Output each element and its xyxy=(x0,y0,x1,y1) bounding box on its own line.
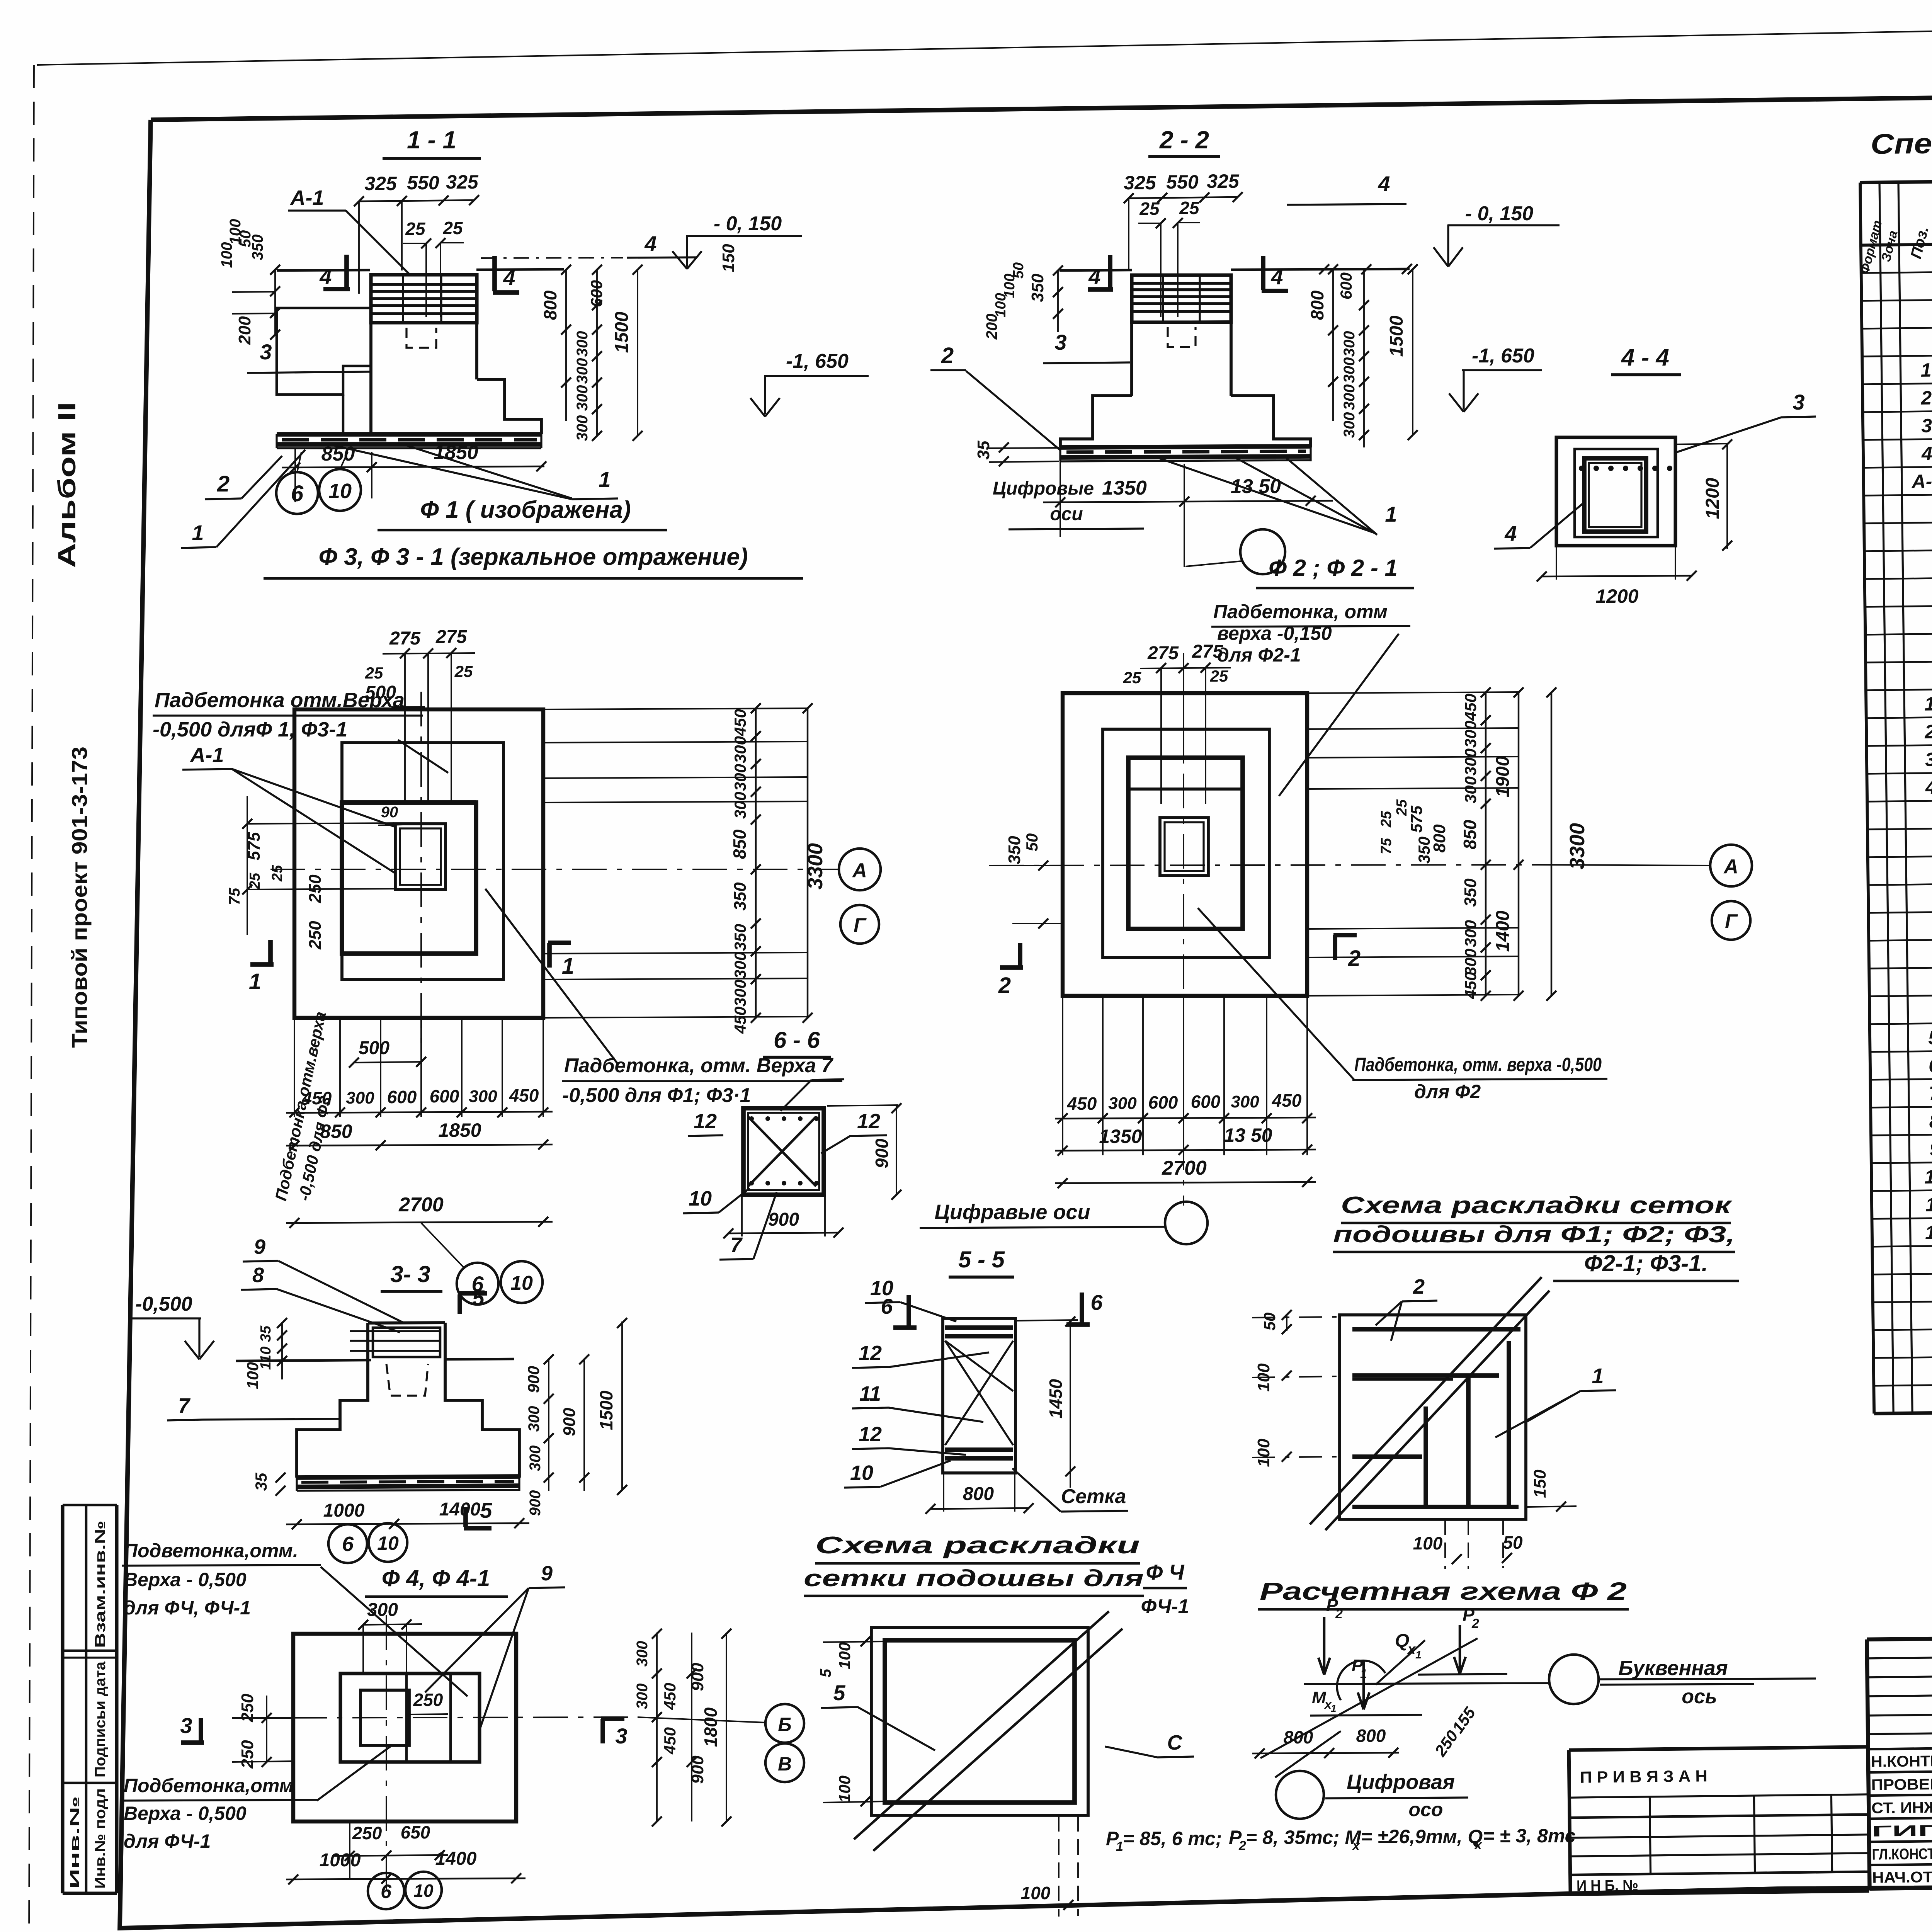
mesh scheme 2 rect xyxy=(871,1628,1088,1815)
svg-text:5: 5 xyxy=(1928,1027,1932,1048)
svg-text:25: 25 xyxy=(1210,667,1228,685)
plan F4 outer rect xyxy=(293,1634,516,1821)
svg-text:100: 100 xyxy=(1254,1439,1273,1467)
svg-text:50: 50 xyxy=(1260,1313,1279,1331)
svg-text:Типовой проект 901-3-173: Типовой проект 901-3-173 xyxy=(67,747,92,1048)
svg-text:7: 7 xyxy=(178,1394,191,1417)
svg-text:х: х xyxy=(1474,1838,1483,1852)
svg-text:осо: осо xyxy=(1409,1799,1443,1820)
svg-text:325: 325 xyxy=(364,173,397,194)
svg-text:1850: 1850 xyxy=(438,1119,481,1141)
section 2-2 ground line xyxy=(1060,270,1132,270)
svg-text:Ф 4, Ф 4-1: Ф 4, Ф 4-1 xyxy=(382,1565,490,1591)
svg-text:100: 100 xyxy=(835,1642,854,1669)
section 2-2 step profile xyxy=(1060,396,1132,447)
svg-text:800: 800 xyxy=(1430,824,1449,853)
detail 6-6 square xyxy=(743,1108,824,1195)
svg-text:3: 3 xyxy=(615,1724,627,1748)
svg-text:300: 300 xyxy=(574,331,591,357)
svg-text:300: 300 xyxy=(574,415,591,441)
plan F4 right dims xyxy=(656,1633,658,1821)
svg-text:600: 600 xyxy=(587,280,605,307)
svg-text:Альбом II: Альбом II xyxy=(53,402,81,568)
svg-text:300: 300 xyxy=(731,764,749,791)
plan F4 axis circles 6 10 bottom xyxy=(368,1873,404,1909)
svg-text:9: 9 xyxy=(254,1235,265,1259)
svg-text:Ф Ч: Ф Ч xyxy=(1146,1560,1185,1584)
svg-text:6: 6 xyxy=(342,1532,354,1556)
design scheme P2 arrow right xyxy=(1459,1625,1461,1672)
svg-text:1400: 1400 xyxy=(1493,910,1513,952)
outer sheet border top xyxy=(37,16,1932,65)
detail 6-6 X cross xyxy=(748,1117,816,1186)
svg-text:450: 450 xyxy=(661,1683,679,1710)
svg-text:325: 325 xyxy=(446,171,479,193)
section 3-3 slab xyxy=(297,1476,519,1478)
plan F2 column xyxy=(1160,818,1208,876)
svg-text:для Ф2-1: для Ф2-1 xyxy=(1217,644,1301,666)
svg-text:для Ф2: для Ф2 xyxy=(1414,1081,1481,1102)
plan F2 right dim chain xyxy=(1485,692,1487,996)
svg-text:для ФЧ, ФЧ-1: для ФЧ, ФЧ-1 xyxy=(124,1597,251,1619)
svg-text:35: 35 xyxy=(252,1473,270,1491)
svg-text:10: 10 xyxy=(870,1277,893,1300)
svg-text:12: 12 xyxy=(1925,1221,1932,1243)
svg-text:275: 275 xyxy=(389,628,421,649)
svg-text:Схема раскладки сеток: Схема раскладки сеток xyxy=(1341,1192,1732,1219)
detail 5-5 top bars xyxy=(945,1325,1013,1330)
svg-text:Инв.№ подл: Инв.№ подл xyxy=(92,1788,109,1889)
svg-text:300: 300 xyxy=(574,385,591,411)
svg-text:10: 10 xyxy=(413,1881,434,1901)
svg-text:25: 25 xyxy=(1179,198,1200,218)
svg-text:Цифровые: Цифровые xyxy=(993,478,1094,499)
section 1-1 dim 1500 xyxy=(637,270,638,436)
svg-text:1350: 1350 xyxy=(1102,477,1147,499)
outer sheet border left xyxy=(29,65,34,1932)
svg-text:1500: 1500 xyxy=(596,1390,616,1430)
svg-text:Г: Г xyxy=(1725,910,1738,933)
detail 5-5 dim 1450 right xyxy=(1017,1320,1078,1321)
plan F2 chain 1350 1350 xyxy=(1055,1150,1316,1151)
title block group xyxy=(1867,1630,1932,1889)
svg-text:850: 850 xyxy=(730,829,750,859)
svg-text:Буквенная: Буквенная xyxy=(1618,1656,1728,1680)
svg-text:2: 2 xyxy=(1924,721,1932,742)
svg-text:2700: 2700 xyxy=(1162,1157,1207,1179)
svg-text:800: 800 xyxy=(1307,290,1327,320)
svg-text:35: 35 xyxy=(258,1325,274,1342)
section 2-2 axis circle xyxy=(1240,529,1285,574)
svg-text:подошвы для Ф1; Ф2; Ф3,: подошвы для Ф1; Ф2; Ф3, xyxy=(1333,1221,1735,1247)
svg-text:575: 575 xyxy=(1407,805,1425,833)
section 3-3 axis circles 6 10 xyxy=(328,1524,367,1563)
svg-text:Подбетонка,отм: Подбетонка,отм xyxy=(124,1775,294,1796)
section 1-1 left 4 flag xyxy=(344,255,349,288)
svg-text:Ф 1 ( изображена): Ф 1 ( изображена) xyxy=(420,497,631,523)
section 2-2 anchor hatch block xyxy=(1132,275,1231,322)
svg-text:90: 90 xyxy=(381,804,398,821)
svg-text:450: 450 xyxy=(731,709,749,736)
plan F2 axis circles A G xyxy=(1710,845,1752,886)
detail 5-5 bottom bars xyxy=(945,1447,1013,1452)
detail 4-4 dots xyxy=(1579,466,1584,471)
svg-text:4: 4 xyxy=(1270,265,1283,289)
svg-text:800: 800 xyxy=(1284,1727,1313,1747)
svg-text:С: С xyxy=(1167,1731,1183,1754)
detail 4-4 dim 1200 right xyxy=(1675,444,1729,444)
svg-text:Падбетонка, отм. верха -0,500: Падбетонка, отм. верха -0,500 xyxy=(1354,1054,1602,1075)
svg-text:35: 35 xyxy=(974,440,993,459)
svg-text:300: 300 xyxy=(634,1641,651,1667)
svg-text:1800: 1800 xyxy=(701,1707,721,1747)
svg-text:600: 600 xyxy=(1191,1092,1221,1112)
section 2-2 anchor bolt dashed xyxy=(1168,327,1196,347)
svg-text:Г: Г xyxy=(854,914,867,937)
svg-text:А: А xyxy=(852,859,867,882)
section 2-2 column xyxy=(1132,322,1231,322)
section 1-1 anchor bolt dashed xyxy=(406,328,436,348)
svg-text:верха -0,150: верха -0,150 xyxy=(1217,622,1332,644)
detail 4-4 outer square xyxy=(1556,437,1675,546)
section 3-3 bottom dims 1000 1400 xyxy=(286,1523,529,1524)
svg-text:А: А xyxy=(1723,855,1738,878)
design scheme P2 arrow left xyxy=(1323,1617,1326,1673)
svg-text:-0,500: -0,500 xyxy=(135,1293,192,1315)
svg-text:300: 300 xyxy=(1461,721,1480,748)
svg-text:1000: 1000 xyxy=(323,1500,365,1521)
svg-text:300: 300 xyxy=(1461,748,1480,776)
svg-text:300: 300 xyxy=(1341,384,1358,410)
svg-text:800: 800 xyxy=(1356,1726,1386,1746)
svg-text:2700: 2700 xyxy=(398,1194,444,1216)
svg-text:3300: 3300 xyxy=(804,843,827,889)
svg-text:300: 300 xyxy=(469,1087,497,1106)
mesh scheme 2 diagonals xyxy=(854,1611,1109,1839)
svg-text:800: 800 xyxy=(963,1484,994,1504)
svg-text:11: 11 xyxy=(1925,1194,1932,1216)
svg-text:900: 900 xyxy=(768,1209,799,1230)
svg-text:А-1: А-1 xyxy=(189,743,224,767)
svg-text:11: 11 xyxy=(859,1382,881,1405)
svg-text:300: 300 xyxy=(1461,920,1480,947)
svg-text:150: 150 xyxy=(719,244,738,272)
section 3-3 profile xyxy=(297,1361,368,1478)
svg-text:- 0, 150: - 0, 150 xyxy=(1465,202,1533,225)
svg-text:3: 3 xyxy=(1925,748,1932,770)
svg-text:1200: 1200 xyxy=(1702,478,1723,519)
detail 6-6 dim 900 right xyxy=(827,1105,898,1106)
svg-text:4: 4 xyxy=(1921,443,1932,464)
svg-text:Б: Б xyxy=(778,1714,791,1735)
plan F2 right extensions xyxy=(1307,692,1519,693)
svg-text:оси: оси xyxy=(1050,504,1083,524)
svg-text:-1, 650: -1, 650 xyxy=(1472,345,1534,367)
svg-text:300: 300 xyxy=(1341,331,1358,357)
title block signature rows xyxy=(1868,1746,1932,1749)
svg-text:13 50: 13 50 xyxy=(1224,1124,1272,1146)
svg-text:12: 12 xyxy=(859,1423,882,1446)
plan F2 bottom axis circle xyxy=(1165,1202,1207,1244)
plan F2 bottom extensions xyxy=(1062,996,1063,1155)
plan F1 inner thick ring xyxy=(342,803,476,954)
svg-text:1: 1 xyxy=(1592,1364,1604,1388)
svg-text:450: 450 xyxy=(509,1085,539,1105)
svg-text:Верха - 0,500: Верха - 0,500 xyxy=(124,1569,247,1590)
svg-text:600: 600 xyxy=(1337,272,1355,299)
svg-text:100: 100 xyxy=(218,242,235,268)
svg-text:450: 450 xyxy=(1272,1090,1302,1111)
svg-text:300: 300 xyxy=(346,1088,374,1107)
svg-text:275: 275 xyxy=(435,627,467,647)
svg-text:4: 4 xyxy=(319,264,332,289)
mesh scheme 1 diagonals xyxy=(1325,1291,1549,1530)
svg-text:6 - 6: 6 - 6 xyxy=(774,1027,820,1053)
svg-text:для ФЧ-1: для ФЧ-1 xyxy=(124,1830,211,1852)
svg-text:= ±26,9тм, Q: = ±26,9тм, Q xyxy=(1361,1826,1483,1847)
svg-text:= 85, 6 тс;: = 85, 6 тс; xyxy=(1123,1828,1222,1849)
svg-text:100: 100 xyxy=(835,1776,854,1803)
plan F4 bottom dims 250 650 xyxy=(332,1855,448,1856)
section 3-3 hatch small lines left xyxy=(350,1330,440,1332)
svg-text:6: 6 xyxy=(1090,1290,1103,1315)
title block outer xyxy=(1867,1630,1932,1639)
svg-text:- 0, 150: - 0, 150 xyxy=(714,213,782,235)
section 2-2 dim 1500 xyxy=(1412,269,1413,435)
svg-text:450: 450 xyxy=(661,1727,679,1755)
detail 4-4 inner squares xyxy=(1575,449,1658,537)
svg-text:2: 2 xyxy=(1335,1607,1343,1621)
svg-text:300: 300 xyxy=(1461,949,1480,976)
svg-text:2: 2 xyxy=(998,973,1011,998)
plan F2 axes xyxy=(1183,653,1184,1206)
svg-text:50: 50 xyxy=(1023,833,1041,852)
plan F1 right extension lines xyxy=(543,708,808,709)
svg-text:3: 3 xyxy=(260,340,272,364)
svg-text:325: 325 xyxy=(1207,170,1240,192)
svg-text:1 - 1: 1 - 1 xyxy=(407,126,456,154)
svg-text:10: 10 xyxy=(328,480,352,503)
svg-text:Падбетонка, отм: Падбетонка, отм xyxy=(1213,601,1388,622)
section 2-2 left 4 flag xyxy=(1108,255,1112,288)
svg-text:250: 250 xyxy=(413,1690,443,1710)
svg-text:2: 2 xyxy=(1348,946,1361,971)
svg-text:10: 10 xyxy=(689,1187,712,1210)
svg-text:25: 25 xyxy=(442,218,463,238)
detail 6-6 dim 900 bottom xyxy=(741,1196,743,1236)
plan F1 middle ring xyxy=(342,743,503,980)
svg-text:1: 1 xyxy=(1360,1667,1367,1681)
mesh scheme 1 outer square xyxy=(1340,1315,1526,1519)
svg-text:2: 2 xyxy=(941,343,954,368)
svg-text:5: 5 xyxy=(472,1286,485,1310)
svg-text:325: 325 xyxy=(1124,172,1156,194)
svg-text:200: 200 xyxy=(235,316,254,345)
svg-text:5: 5 xyxy=(817,1668,834,1677)
detail 5-5 rect xyxy=(943,1318,1015,1473)
svg-text:450: 450 xyxy=(1461,972,1480,999)
svg-text:350: 350 xyxy=(1028,274,1047,302)
svg-text:300: 300 xyxy=(527,1446,544,1471)
svg-text:= ± 3, 8тс: = ± 3, 8тс xyxy=(1483,1825,1576,1847)
svg-text:25: 25 xyxy=(1139,199,1160,219)
svg-text:10: 10 xyxy=(377,1532,399,1554)
svg-text:300: 300 xyxy=(367,1600,398,1620)
svg-text:900: 900 xyxy=(527,1490,544,1516)
svg-text:25: 25 xyxy=(1123,668,1141,687)
svg-text:ПРОВЕР.: ПРОВЕР. xyxy=(1871,1776,1932,1794)
svg-text:Цифровая: Цифровая xyxy=(1347,1770,1455,1794)
svg-text:300: 300 xyxy=(1341,357,1358,383)
svg-text:ФЧ-1: ФЧ-1 xyxy=(1141,1595,1189,1618)
svg-text:10: 10 xyxy=(510,1272,533,1294)
svg-text:300: 300 xyxy=(526,1406,543,1432)
svg-text:900: 900 xyxy=(524,1366,543,1393)
svg-text:6: 6 xyxy=(291,481,304,506)
section 1-1 axis circles 6 10 xyxy=(276,472,318,514)
svg-text:300: 300 xyxy=(731,792,749,819)
section 2-2 right 4 flag xyxy=(1261,256,1265,290)
svg-text:4: 4 xyxy=(1504,521,1517,546)
svg-text:500: 500 xyxy=(359,1038,389,1058)
svg-text:ГИП: ГИП xyxy=(1872,1822,1932,1840)
svg-text:8: 8 xyxy=(252,1264,264,1287)
svg-text:3300: 3300 xyxy=(1566,823,1589,869)
svg-text:650: 650 xyxy=(401,1822,430,1842)
spec table grid xyxy=(1860,173,1932,183)
plan F1 outer square xyxy=(294,709,543,1018)
plan F4 axes xyxy=(386,1615,387,1893)
svg-text:50: 50 xyxy=(1503,1532,1523,1553)
section 1-1 right 4 flag xyxy=(492,256,497,291)
svg-text:600: 600 xyxy=(430,1086,459,1106)
svg-text:1450: 1450 xyxy=(1046,1379,1066,1418)
svg-text:1500: 1500 xyxy=(612,311,632,353)
bukvennaya os circle xyxy=(1549,1655,1599,1704)
design scheme axis horizontal xyxy=(1304,1683,1548,1684)
detail 4-4 dim 1200 bottom xyxy=(1556,546,1557,580)
svg-text:350: 350 xyxy=(1005,836,1024,864)
plan F2 section 2 flags xyxy=(1018,943,1022,968)
svg-text:100: 100 xyxy=(1021,1883,1051,1903)
svg-text:600: 600 xyxy=(1148,1092,1178,1112)
plan F4 inner rect xyxy=(340,1673,480,1762)
svg-text:3: 3 xyxy=(1793,390,1804,414)
svg-text:1200: 1200 xyxy=(1595,585,1638,607)
section 1-1 left step small xyxy=(342,395,345,434)
plan F1 axis circles 6 10 bottom xyxy=(457,1263,498,1304)
section 1-1 leaders to 1 xyxy=(406,445,572,498)
svg-text:100: 100 xyxy=(227,219,244,245)
plan F1 axes xyxy=(420,692,422,1043)
svg-text:300: 300 xyxy=(731,980,749,1007)
svg-text:450: 450 xyxy=(731,1007,749,1034)
svg-text:Подписьи дата: Подписьи дата xyxy=(92,1661,109,1777)
svg-text:1400: 1400 xyxy=(439,1499,481,1520)
svg-text:ось: ось xyxy=(1682,1685,1717,1708)
section 1-1 anchor hatch block xyxy=(371,275,477,323)
svg-text:9: 9 xyxy=(541,1562,553,1585)
svg-text:Q: Q xyxy=(1395,1631,1409,1651)
svg-text:-1, 650: -1, 650 xyxy=(786,350,849,372)
svg-text:6: 6 xyxy=(1929,1054,1932,1076)
svg-text:4: 4 xyxy=(1378,172,1390,196)
svg-text:1: 1 xyxy=(192,520,204,545)
svg-text:300: 300 xyxy=(731,952,749,979)
svg-text:Ф2-1; Ф3-1.: Ф2-1; Ф3-1. xyxy=(1584,1250,1708,1276)
svg-text:4: 4 xyxy=(644,231,656,256)
svg-text:350: 350 xyxy=(1461,878,1480,907)
spec table group xyxy=(1855,119,1932,1414)
svg-text:5 - 5: 5 - 5 xyxy=(958,1247,1005,1272)
svg-text:П Р И В Я З А Н: П Р И В Я З А Н xyxy=(1580,1767,1708,1786)
plan F4 section 3 flags xyxy=(199,1718,203,1743)
svg-text:сетки подошвы для: сетки подошвы для xyxy=(804,1565,1144,1591)
svg-text:10: 10 xyxy=(1924,1166,1932,1188)
design scheme inclined axis xyxy=(1260,1638,1478,1758)
plan F1 right dim chain xyxy=(755,708,757,1018)
svg-text:25: 25 xyxy=(405,219,426,239)
svg-text:1: 1 xyxy=(249,969,261,994)
svg-text:450: 450 xyxy=(1461,694,1480,721)
cifrovaya os circle xyxy=(1276,1771,1324,1819)
plan F1 chain 850 1850 xyxy=(286,1145,553,1146)
svg-text:2: 2 xyxy=(1238,1838,1246,1853)
svg-text:350: 350 xyxy=(731,882,750,911)
svg-text:6: 6 xyxy=(381,1881,392,1902)
section 2-2 slab xyxy=(1060,446,1311,447)
svg-text:Инв.№: Инв.№ xyxy=(68,1796,82,1889)
svg-text:СТ. ИНЖ.: СТ. ИНЖ. xyxy=(1871,1799,1932,1817)
svg-text:В: В xyxy=(778,1753,792,1775)
plan F4 bottom dims 1000 1400 xyxy=(286,1878,526,1879)
svg-text:7: 7 xyxy=(1929,1082,1932,1104)
svg-text:1: 1 xyxy=(1385,502,1397,526)
svg-text:Ф 2 ; Ф 2 - 1: Ф 2 ; Ф 2 - 1 xyxy=(1269,555,1398,581)
svg-text:9: 9 xyxy=(1929,1138,1932,1160)
section 2-2 right dims xyxy=(1332,269,1334,421)
svg-text:10: 10 xyxy=(850,1461,873,1485)
svg-text:1000: 1000 xyxy=(320,1850,361,1871)
svg-text:350: 350 xyxy=(731,924,749,951)
svg-text:Подветонка,отм.: Подветонка,отм. xyxy=(124,1540,298,1561)
svg-text:100: 100 xyxy=(243,1362,262,1389)
svg-text:1: 1 xyxy=(1116,1839,1123,1854)
svg-text:1500: 1500 xyxy=(1386,315,1407,357)
svg-text:4: 4 xyxy=(1925,776,1932,798)
plan F1 bottom chain 450 300 600 600 300 450 xyxy=(286,1112,553,1113)
svg-text:2 - 2: 2 - 2 xyxy=(1159,126,1209,154)
svg-text:8: 8 xyxy=(1929,1110,1932,1132)
svg-text:4 - 4: 4 - 4 xyxy=(1621,344,1669,371)
svg-text:12: 12 xyxy=(859,1342,882,1365)
svg-text:А-1: А-1 xyxy=(1911,470,1932,492)
svg-text:1: 1 xyxy=(562,954,574,979)
mesh scheme 1 inner bars xyxy=(1352,1327,1520,1332)
svg-text:250: 250 xyxy=(306,921,325,950)
svg-text:900: 900 xyxy=(872,1138,892,1168)
svg-text:500: 500 xyxy=(365,682,396,703)
svg-text:1900: 1900 xyxy=(1493,756,1513,797)
svg-text:3: 3 xyxy=(1054,330,1066,354)
svg-text:4: 4 xyxy=(1088,264,1100,289)
svg-text:-0,500 для Ф1; Ф3·1: -0,500 для Ф1; Ф3·1 xyxy=(562,1084,751,1107)
plan F2 inner thick ring xyxy=(1128,758,1243,929)
section 1-1 right dim chain 800/600/300 xyxy=(565,270,567,421)
svg-text:5: 5 xyxy=(833,1680,845,1705)
svg-text:-0,500 дляФ 1, Ф3-1: -0,500 дляФ 1, Ф3-1 xyxy=(153,718,347,741)
svg-text:300: 300 xyxy=(634,1684,651,1709)
